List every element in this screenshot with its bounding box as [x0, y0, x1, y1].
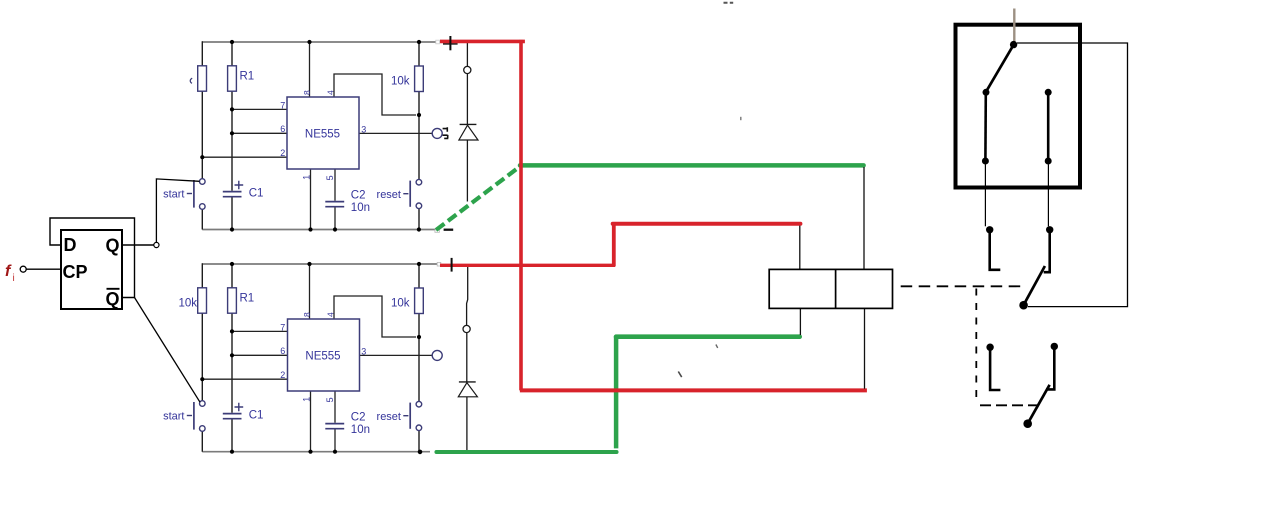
wire CP input	[26, 268, 61, 270]
S1 right pole contact dots and bar	[1045, 89, 1052, 96]
wire pin 7 (unit 1)	[232, 108, 287, 110]
rail end nub top (unit 2)	[437, 262, 441, 266]
relay coil box divider	[835, 269, 837, 308]
wire pin 2 (unit 1)	[202, 156, 287, 158]
switch S2 lever	[1024, 266, 1045, 305]
resistor 10k (unit 1)	[415, 66, 424, 92]
wire R1 branch (unit 1)	[231, 41, 233, 229]
op IC NE555 U1	[287, 97, 359, 169]
svg-text:C2: C2	[351, 412, 366, 424]
rail end nub top (unit 1)	[436, 40, 440, 44]
wire Q-bar to start switch unit 2	[135, 298, 201, 403]
svg-text:4: 4	[326, 312, 336, 317]
svg-text:4: 4	[326, 90, 336, 95]
wire pin 8 (unit 1)	[309, 42, 311, 97]
switch reset (unit 2)	[416, 401, 422, 407]
wire pin 7 (unit 2)	[232, 330, 287, 332]
wire pin 8 (unit 2)	[309, 264, 311, 319]
svg-text:10k: 10k	[391, 76, 410, 88]
svg-text:2: 2	[280, 148, 285, 158]
wire green A end down to relay coil right	[863, 167, 865, 269]
wire R1 branch (unit 2)	[231, 263, 233, 452]
wire from common contact to right rail	[1017, 43, 1128, 307]
green wire dashed diagonal from unit 1 minus	[436, 165, 522, 230]
svg-text:R1: R1	[240, 293, 255, 305]
switch assembly thick box	[956, 25, 1081, 188]
switch S2 left contact	[986, 226, 993, 233]
wire relay coil right down to red bottom	[864, 308, 866, 388]
svg-text:5: 5	[325, 397, 335, 402]
wire relay coil left down to green B	[799, 308, 801, 335]
switch S3 lever	[1028, 385, 1050, 423]
wire pin 5 / C2 branch (unit 2)	[334, 391, 336, 452]
wire pin 2 (unit 2)	[202, 378, 287, 380]
plus mark cross stroke (unit 2)	[451, 258, 453, 272]
svg-text:3: 3	[361, 346, 366, 356]
wire pin 6 (unit 1)	[232, 132, 287, 134]
svg-text:start: start	[163, 411, 184, 423]
wire pin 5 / C2 branch (unit 1)	[334, 169, 336, 230]
stray rotated 5 glyph (unit 1)	[443, 127, 449, 138]
wire pin 3 output (unit 2)	[359, 354, 432, 356]
green wire along unit 2 bottom rail	[436, 450, 616, 454]
switch reset (unit 1)	[416, 179, 422, 185]
dashed actuator link horizontal from relay	[901, 285, 1025, 287]
op IC NE555 U2	[288, 319, 360, 391]
wire pin 4 bend to 10k (unit 1)	[334, 74, 416, 115]
svg-text:8: 8	[302, 312, 312, 317]
switch S3 left contact	[986, 344, 993, 351]
red wire long vertical	[519, 40, 523, 391]
capacitor C1 (unit 1)	[223, 192, 242, 197]
wire pin 1 (unit 1)	[310, 169, 312, 230]
wire Q output	[122, 244, 154, 246]
relay coil box	[769, 269, 892, 308]
svg-text:D: D	[64, 235, 77, 255]
svg-text:6: 6	[280, 346, 285, 356]
switch start (unit 1)	[200, 179, 206, 185]
wire red middle end down to relay coil left	[799, 226, 801, 270]
svg-text:8: 8	[302, 90, 312, 95]
resistor 10k left (unit 2)	[198, 288, 207, 313]
red wire top horizontal (plus of unit 1)	[440, 40, 525, 44]
wire bottom rail (unit 2)	[202, 451, 430, 453]
red wire long bottom horizontal	[520, 388, 867, 392]
svg-text:1: 1	[302, 397, 312, 402]
diode D2 wire lower (unit 2)	[466, 397, 468, 451]
dashed actuator link lower horizontal	[980, 404, 1040, 406]
wire 10k branch (unit 1)	[418, 41, 420, 229]
red wire middle horizontal to relay	[613, 222, 801, 226]
capacitor C1 (unit 2)	[223, 414, 242, 419]
dashed actuator link vertical	[975, 289, 977, 405]
terminal circle f input	[20, 266, 26, 272]
rail end nub bottom (unit 1)	[435, 230, 440, 233]
svg-text:1: 1	[302, 175, 312, 180]
svg-text:6: 6	[280, 124, 285, 134]
wire feedback Q-bar to D	[50, 218, 135, 298]
terminal circle Q	[154, 242, 159, 247]
capacitor C2 10n (unit 1)	[325, 202, 344, 207]
svg-text:2: 2	[280, 370, 285, 380]
external lead (tan) into box	[1013, 9, 1015, 44]
wire right pole down to S2	[1047, 164, 1049, 226]
wire left pole down to S2	[984, 164, 986, 226]
common contact dot S1	[1010, 41, 1017, 48]
svg-text:reset: reset	[377, 411, 401, 423]
green wire horizontal net A (minus of unit 1)	[520, 163, 864, 168]
switch S3 common dot	[1023, 419, 1032, 428]
red wire unit 2 plus horizontal	[440, 264, 615, 267]
plus mark cross stroke (unit 1)	[449, 36, 451, 50]
wire pin 3 output (unit 1)	[359, 132, 432, 134]
diode D1 wire lower to minus diagonal (unit 1)	[466, 140, 468, 202]
svg-text:reset: reset	[377, 189, 401, 201]
wire pin 6 (unit 2)	[232, 354, 287, 356]
diode D2 wire upper (unit 2)	[467, 267, 468, 326]
svg-text:C1: C1	[249, 410, 264, 422]
svg-text:C2: C2	[351, 190, 366, 202]
wire Q to start switch unit 1	[156, 179, 199, 243]
svg-text:10k: 10k	[391, 298, 410, 310]
switch S2 right contact	[1046, 226, 1053, 233]
resistor 10k right (unit 2)	[415, 288, 424, 314]
svg-text:10n: 10n	[351, 424, 370, 436]
svg-text:Q: Q	[106, 236, 120, 256]
flip-flop U3 box	[61, 230, 122, 309]
svg-text:7: 7	[280, 322, 285, 332]
diode D2 wire middle (unit 2)	[466, 333, 468, 382]
svg-text:i: i	[13, 273, 15, 284]
diode D1 symbol (unit 1)	[460, 123, 477, 125]
S1 left pole contact dots and bar	[983, 89, 990, 96]
svg-text:start: start	[163, 189, 184, 201]
resistor R1 (unit 2)	[228, 288, 237, 313]
wire top supply rail (unit 1)	[202, 41, 435, 43]
plus mark underbar (unit 1)	[443, 43, 458, 45]
wire left branch (unit 1)	[201, 41, 203, 229]
wire 10k branch (unit 2)	[418, 263, 420, 452]
svg-text:5: 5	[325, 175, 335, 180]
switch S1 lever	[986, 45, 1013, 91]
svg-text:NE555: NE555	[305, 129, 340, 141]
diode D2 terminal circle (unit 2)	[463, 325, 470, 332]
diode D1 wire upper (unit 1)	[466, 43, 468, 66]
plus mark underbar (unit 2)	[444, 265, 459, 267]
resistor R1 (unit 1)	[228, 66, 237, 91]
wire left branch (unit 2)	[201, 263, 203, 452]
switch S3 right contact	[1051, 343, 1058, 350]
red wire unit 2 vertical jog	[612, 223, 616, 266]
diode D2 symbol (unit 2)	[459, 381, 476, 383]
output terminal pin3 (unit 1)	[432, 128, 442, 138]
green wire vertical net B	[614, 337, 619, 449]
node dots unit 1	[200, 40, 421, 232]
svg-text:R1: R1	[240, 71, 255, 83]
svg-text:10n: 10n	[351, 202, 370, 214]
green wire horizontal net B	[616, 334, 800, 339]
diode D1 wire middle (unit 1)	[466, 74, 468, 125]
svg-text:NE555: NE555	[305, 351, 340, 363]
wire top supply rail (unit 2)	[202, 263, 438, 265]
svg-text:CP: CP	[63, 262, 88, 282]
svg-text:Q: Q	[106, 289, 120, 309]
output terminal pin3 (unit 2)	[432, 350, 442, 360]
diode D1 terminal circle (unit 1)	[464, 66, 471, 73]
svg-text:3: 3	[361, 124, 366, 134]
resistor left (unit 1, label fragment)	[198, 66, 207, 91]
svg-text:C1: C1	[249, 188, 264, 200]
capacitor C2 10n (unit 2)	[325, 424, 344, 429]
wire bottom rail (unit 1)	[202, 229, 435, 231]
switch start (unit 2)	[200, 401, 206, 407]
minus mark (unit 1)	[444, 229, 454, 231]
switch S2 common dot	[1019, 301, 1028, 310]
node dots unit 2	[200, 262, 422, 454]
svg-text:10k: 10k	[178, 298, 197, 310]
wire pin 1 (unit 2)	[310, 391, 312, 452]
wire pin 4 bend to 10k (unit 2)	[334, 296, 416, 337]
speck artifacts	[724, 2, 734, 4]
svg-text:7: 7	[280, 100, 285, 110]
